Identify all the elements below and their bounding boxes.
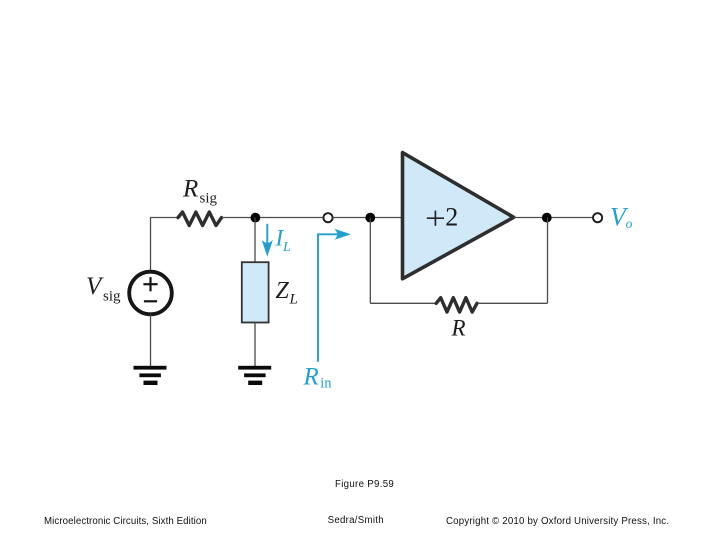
- current IL arrow: [262, 224, 273, 257]
- svg-text:sig: sig: [200, 191, 218, 207]
- svg-text:sig: sig: [103, 289, 121, 305]
- wire amplifier output: [514, 217, 593, 219]
- wire ZL to ground: [254, 323, 256, 367]
- wire left vertical from main node down to Vsig source: [150, 218, 152, 273]
- label ZL: [276, 278, 298, 308]
- svg-text:o: o: [626, 216, 633, 231]
- resistor Rsig: [178, 212, 222, 226]
- wire node to ZL: [254, 218, 256, 263]
- wire feedback right vertical: [547, 218, 549, 304]
- svg-text:Microelectronic Circuits, Sixt: Microelectronic Circuits, Sixth Edition: [44, 516, 207, 527]
- label +2: [427, 203, 458, 232]
- wire from Rsig to load node: [222, 217, 323, 219]
- label Vsig: [86, 273, 121, 305]
- op-amp gain block +2: [403, 153, 514, 279]
- svg-text:L: L: [282, 240, 291, 255]
- svg-text:Z: Z: [276, 278, 290, 304]
- node open circle output terminal: [593, 213, 602, 222]
- wire main horizontal into Rsig: [150, 217, 178, 219]
- load ZL: [242, 262, 269, 322]
- svg-text:2: 2: [445, 203, 458, 232]
- node junction dot at load: [251, 213, 261, 223]
- wire feedback left vertical: [369, 218, 371, 304]
- svg-text:L: L: [289, 292, 298, 308]
- Rin arrow: [318, 229, 351, 362]
- node junction dot amplifier input: [365, 213, 375, 223]
- label Rsig: [182, 175, 218, 206]
- ground under Vsig: [134, 366, 167, 385]
- wire feedback bottom left: [370, 302, 435, 304]
- node open circle (input terminal): [323, 213, 332, 222]
- svg-text:Sedra/Smith: Sedra/Smith: [328, 515, 384, 526]
- wire Vsig to ground: [150, 314, 152, 366]
- svg-text:R: R: [451, 315, 466, 340]
- voltage source Vsig: [129, 272, 172, 315]
- wire feedback bottom right: [478, 302, 548, 304]
- wire from open circle to amplifier input: [333, 217, 402, 219]
- svg-text:R: R: [182, 175, 198, 202]
- node junction dot output: [542, 213, 552, 223]
- resistor R feedback: [436, 298, 477, 312]
- label IL: [275, 226, 292, 256]
- ground under ZL: [238, 366, 271, 385]
- svg-text:R: R: [303, 363, 319, 390]
- svg-text:in: in: [320, 375, 332, 391]
- svg-text:Copyright © 2010 by Oxford Uni: Copyright © 2010 by Oxford University Pr…: [446, 516, 669, 527]
- svg-text:Figure P9.59: Figure P9.59: [335, 479, 394, 490]
- label Vo: [610, 202, 633, 231]
- label Rin: [303, 363, 333, 391]
